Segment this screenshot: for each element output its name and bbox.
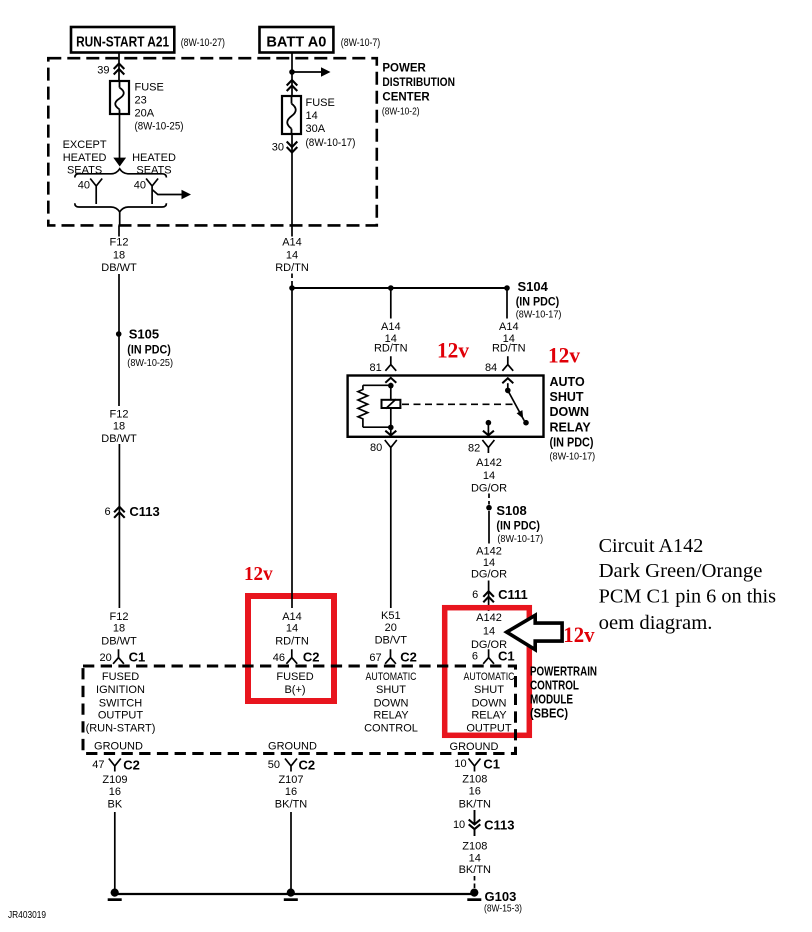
svg-text:82: 82 <box>468 443 480 455</box>
svg-text:30: 30 <box>272 142 284 154</box>
svg-text:67: 67 <box>369 652 381 664</box>
svg-text:(IN PDC): (IN PDC) <box>496 521 540 533</box>
svg-text:EXCEPT: EXCEPT <box>63 139 107 151</box>
svg-text:(IN PDC): (IN PDC) <box>550 436 594 450</box>
svg-text:FUSE: FUSE <box>135 82 164 94</box>
svg-text:C2: C2 <box>123 758 140 773</box>
svg-text:C113: C113 <box>484 818 514 833</box>
svg-text:12v: 12v <box>548 343 580 368</box>
svg-text:80: 80 <box>370 442 382 454</box>
svg-text:RELAY: RELAY <box>373 710 409 722</box>
svg-text:S105: S105 <box>129 327 159 342</box>
svg-text:14: 14 <box>483 470 495 482</box>
svg-text:6: 6 <box>104 506 110 518</box>
svg-text:14: 14 <box>306 110 318 122</box>
svg-text:MODULE: MODULE <box>530 693 573 707</box>
svg-text:A142: A142 <box>476 612 502 624</box>
svg-text:14: 14 <box>469 853 481 865</box>
svg-text:S108: S108 <box>496 503 526 518</box>
svg-text:Z109: Z109 <box>102 774 127 786</box>
svg-text:Z107: Z107 <box>278 774 303 786</box>
svg-text:(8W-15-3): (8W-15-3) <box>484 903 522 915</box>
svg-text:(SBEC): (SBEC) <box>530 707 568 721</box>
svg-text:84: 84 <box>485 362 497 374</box>
svg-text:(RUN-START): (RUN-START) <box>86 723 156 735</box>
svg-text:C1: C1 <box>498 649 515 664</box>
svg-text:C2: C2 <box>400 650 417 665</box>
svg-text:SHUT: SHUT <box>550 390 584 404</box>
svg-text:IGNITION: IGNITION <box>96 684 145 696</box>
svg-text:(8W-10-17): (8W-10-17) <box>306 137 356 149</box>
svg-text:CONTROL: CONTROL <box>530 679 579 693</box>
svg-text:14: 14 <box>286 623 298 635</box>
svg-text:SEATS: SEATS <box>67 165 102 177</box>
svg-text:DOWN: DOWN <box>472 698 507 710</box>
svg-text:16: 16 <box>469 786 481 798</box>
svg-text:CONTROL: CONTROL <box>364 723 418 735</box>
svg-text:(8W-10-17): (8W-10-17) <box>550 451 596 463</box>
svg-text:JR403019: JR403019 <box>8 909 46 921</box>
svg-text:RUN-START A21: RUN-START A21 <box>76 33 169 50</box>
svg-text:(8W-10-7): (8W-10-7) <box>341 37 380 49</box>
svg-text:6: 6 <box>472 589 478 601</box>
svg-text:F12: F12 <box>110 409 129 421</box>
svg-text:SHUT: SHUT <box>474 684 504 696</box>
svg-text:HEATED: HEATED <box>63 152 107 164</box>
svg-text:RD/TN: RD/TN <box>275 262 309 274</box>
svg-text:C2: C2 <box>299 758 316 773</box>
svg-text:RD/TN: RD/TN <box>374 343 408 355</box>
svg-text:C1: C1 <box>483 757 500 772</box>
svg-text:14: 14 <box>286 250 298 262</box>
svg-text:SHUT: SHUT <box>376 684 406 696</box>
svg-text:20: 20 <box>385 622 397 634</box>
svg-text:DOWN: DOWN <box>374 698 409 710</box>
svg-text:C2: C2 <box>303 650 320 665</box>
svg-text:10: 10 <box>454 758 466 770</box>
svg-text:81: 81 <box>370 362 382 374</box>
svg-text:DOWN: DOWN <box>550 405 590 419</box>
svg-text:AUTOMATIC: AUTOMATIC <box>464 671 515 683</box>
svg-text:12v: 12v <box>244 563 273 585</box>
svg-text:14: 14 <box>483 626 495 638</box>
svg-text:20A: 20A <box>135 108 155 120</box>
svg-text:(8W-10-25): (8W-10-25) <box>127 357 173 369</box>
svg-text:S104: S104 <box>518 279 549 294</box>
svg-text:FUSED: FUSED <box>276 671 313 683</box>
svg-text:BK: BK <box>108 799 123 811</box>
svg-text:A14: A14 <box>282 611 302 623</box>
svg-text:(8W-10-17): (8W-10-17) <box>516 309 562 321</box>
svg-text:BK/TN: BK/TN <box>459 799 491 811</box>
svg-text:Circuit A142: Circuit A142 <box>599 535 704 557</box>
svg-text:BK/TN: BK/TN <box>459 864 491 876</box>
svg-text:oem diagram.: oem diagram. <box>599 612 713 634</box>
svg-text:(8W-10-2): (8W-10-2) <box>382 106 420 118</box>
svg-text:(8W-10-27): (8W-10-27) <box>181 37 225 49</box>
svg-text:DB/WT: DB/WT <box>101 433 137 445</box>
svg-text:F12: F12 <box>110 611 129 623</box>
svg-text:10: 10 <box>453 819 465 831</box>
svg-text:RD/TN: RD/TN <box>275 636 309 648</box>
svg-text:DB/VT: DB/VT <box>375 635 408 647</box>
svg-text:FUSED: FUSED <box>102 671 139 683</box>
svg-text:30A: 30A <box>306 123 326 135</box>
svg-text:Dark Green/Orange: Dark Green/Orange <box>599 560 763 582</box>
svg-text:SWITCH: SWITCH <box>99 698 142 710</box>
svg-text:20: 20 <box>100 652 112 664</box>
svg-text:AUTO: AUTO <box>550 375 585 389</box>
svg-text:C113: C113 <box>129 504 159 519</box>
svg-text:F12: F12 <box>110 237 129 249</box>
svg-text:DG/OR: DG/OR <box>471 483 507 495</box>
svg-text:(IN PDC): (IN PDC) <box>127 345 171 357</box>
svg-text:18: 18 <box>113 250 125 262</box>
svg-text:POWERTRAIN: POWERTRAIN <box>530 665 597 679</box>
svg-text:40: 40 <box>134 180 146 192</box>
svg-text:39: 39 <box>97 65 109 77</box>
svg-text:A14: A14 <box>282 237 302 249</box>
svg-text:47: 47 <box>92 759 104 771</box>
svg-text:DG/OR: DG/OR <box>471 569 507 581</box>
svg-text:DB/WT: DB/WT <box>101 262 137 274</box>
svg-text:AUTOMATIC: AUTOMATIC <box>366 671 417 683</box>
svg-text:FUSE: FUSE <box>306 97 335 109</box>
svg-text:BATT A0: BATT A0 <box>266 33 326 50</box>
svg-text:A142: A142 <box>476 457 502 469</box>
svg-text:DB/WT: DB/WT <box>101 636 137 648</box>
svg-text:(IN PDC): (IN PDC) <box>516 297 560 309</box>
svg-text:12v: 12v <box>563 622 594 647</box>
svg-text:16: 16 <box>109 786 121 798</box>
svg-text:46: 46 <box>273 652 285 664</box>
svg-text:Z108: Z108 <box>462 774 487 786</box>
svg-text:RELAY: RELAY <box>471 710 507 722</box>
svg-text:GROUND: GROUND <box>268 741 317 753</box>
svg-text:C111: C111 <box>498 587 528 602</box>
svg-text:K51: K51 <box>381 610 401 622</box>
svg-text:A14: A14 <box>499 321 519 333</box>
svg-text:B(+): B(+) <box>284 684 305 696</box>
svg-text:OUTPUT: OUTPUT <box>98 710 144 722</box>
svg-text:(8W-10-17): (8W-10-17) <box>497 533 543 545</box>
svg-text:18: 18 <box>113 623 125 635</box>
svg-text:50: 50 <box>268 759 280 771</box>
svg-text:Z108: Z108 <box>462 840 487 852</box>
svg-text:14: 14 <box>483 557 495 569</box>
svg-text:BK/TN: BK/TN <box>275 799 307 811</box>
svg-text:PCM C1 pin 6 on this: PCM C1 pin 6 on this <box>599 586 776 608</box>
svg-text:C1: C1 <box>129 650 146 665</box>
svg-text:12v: 12v <box>437 338 469 363</box>
svg-text:CENTER: CENTER <box>382 91 430 103</box>
svg-text:18: 18 <box>113 421 125 433</box>
svg-text:(8W-10-25): (8W-10-25) <box>135 121 184 133</box>
svg-text:23: 23 <box>135 95 147 107</box>
svg-text:A14: A14 <box>381 321 401 333</box>
svg-text:OUTPUT: OUTPUT <box>466 723 512 735</box>
svg-text:A142: A142 <box>476 546 502 558</box>
svg-text:DISTRIBUTION: DISTRIBUTION <box>382 77 455 89</box>
svg-text:40: 40 <box>78 180 90 192</box>
svg-text:GROUND: GROUND <box>94 741 143 753</box>
svg-text:RELAY: RELAY <box>550 420 592 434</box>
svg-text:HEATED: HEATED <box>132 152 176 164</box>
svg-text:POWER: POWER <box>382 63 426 75</box>
svg-text:GROUND: GROUND <box>450 741 499 753</box>
svg-text:16: 16 <box>285 786 297 798</box>
svg-text:6: 6 <box>472 651 478 663</box>
svg-text:RD/TN: RD/TN <box>492 343 526 355</box>
